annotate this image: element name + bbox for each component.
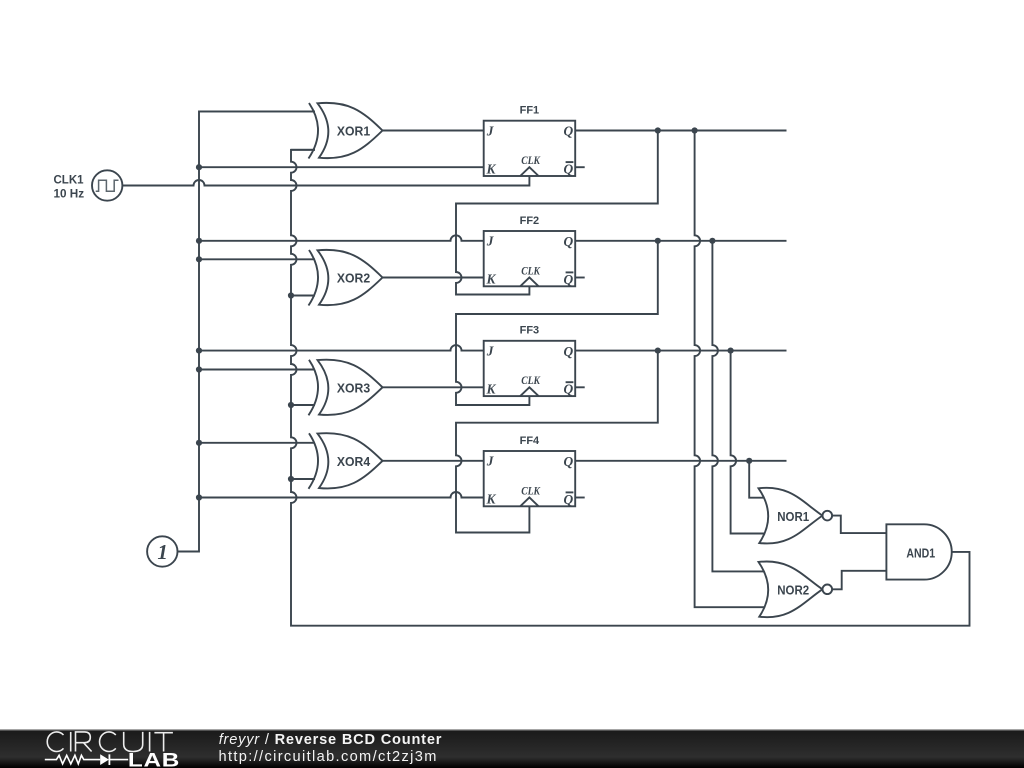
wire bus to FF4 K [199,492,484,497]
footer banner background [0,729,1024,768]
XOR4 input arc [309,433,319,489]
flip-flop FF2 [484,215,576,287]
svg-text:FF2: FF2 [520,215,540,227]
wire feedback net from AND1 output to XOR inputs (second vertical bus) [291,150,970,626]
wire feedback to XOR2 input B [291,295,315,297]
wire bus to XOR1 input A [199,110,315,112]
svg-text:J: J [486,234,495,249]
wire XOR4 output to FF4 J [383,460,484,462]
svg-text:Q: Q [564,492,574,507]
junction on left bus y=497.5 [196,494,202,500]
svg-text:K: K [486,492,497,507]
svg-text:CLK: CLK [521,373,541,387]
svg-text:Q: Q [564,124,574,139]
node 1 circle [147,536,177,566]
wire XOR1 output to FF1 J [383,130,484,132]
svg-text:1: 1 [157,540,168,564]
XOR3 input arc [309,360,319,416]
svg-text:NOR1: NOR1 [777,510,809,524]
svg-text:CLK: CLK [521,263,541,277]
CLK1 square wave glyph [96,180,119,191]
wire FF4 Q output [575,460,786,462]
wire FF3 Q-bar stub [575,386,585,388]
wire FF4 Q to NOR1 input A [749,461,764,498]
xor gate XOR2 [309,250,383,306]
wire FF1 Q to NOR2 input B [695,131,764,608]
svg-text:XOR2: XOR2 [337,272,370,286]
wire FF3 Q output [575,350,786,352]
flip-flop FF3 [484,325,576,397]
NOR2 inversion bubble [823,585,833,595]
NOR2 body [759,561,823,617]
svg-text:CLK: CLK [521,153,541,167]
clock source CLK1 [54,170,123,200]
flip-flop FF4 [484,435,576,507]
wire NOR1 output to AND1 input A [832,516,886,534]
svg-text:freyyr / Reverse BCD Counter: freyyr / Reverse BCD Counter [219,732,443,748]
svg-text:Q: Q [564,272,574,287]
junction FF1 Q / NOR2 column [692,127,698,133]
junction FF4 Q / NOR1 column [746,458,752,464]
xor gate XOR1 [309,103,383,159]
wire feedback to XOR4 input B [291,478,315,480]
svg-text:J: J [486,343,495,358]
wire bus to FF3 J [199,345,484,351]
wire FF2 Q to NOR2 input A [712,241,764,572]
NOR1 body [759,488,823,544]
svg-text:XOR1: XOR1 [337,125,370,139]
FF4 body [484,451,576,506]
svg-text:J: J [486,454,495,469]
svg-text:CLK: CLK [521,483,541,497]
FF2 body [484,231,576,286]
CircuitLab logo resistor and diode glyph [45,755,128,764]
wire bus to XOR4 input A [199,442,315,444]
FF3 clock edge triangle [520,387,538,396]
XOR2 input arc [309,250,319,306]
FF1 body [484,121,576,176]
junction on left bus y=350.6 [196,348,202,354]
wire feedback to XOR1 input B [291,149,315,151]
XOR1 input arc [309,103,319,159]
FF2 clock edge triangle [520,278,538,287]
svg-text:Q: Q [564,344,574,359]
FF3 body [484,341,576,396]
wire FF1 Q output [575,130,786,132]
junction FF1 Q / clock route [655,127,661,133]
svg-text:FF1: FF1 [520,105,540,117]
wire feedback to XOR3 input B [291,404,315,406]
svg-text:Q: Q [564,382,574,397]
svg-text:FF4: FF4 [520,435,540,447]
XOR2 body [318,250,383,305]
wire NOR2 output to AND1 input B [832,571,886,590]
junction FF2 Q / clock route [655,238,661,244]
wire FF2 Q to FF3 CLK [456,241,658,405]
wire bus to XOR3 input A [199,369,315,371]
junction FF3 Q / clock route [655,348,661,354]
svg-text:AND1: AND1 [906,546,935,560]
junction FF2 Q / NOR2 column [709,238,715,244]
CircuitLab logo CIRCUIT lettering [47,732,173,752]
FF4 clock edge triangle [520,498,538,507]
svg-text:XOR4: XOR4 [337,455,370,469]
junction on left bus y=167.2 [196,164,202,170]
wire XOR2 output to FF2 K [383,277,484,279]
AND1 body [886,524,951,579]
wire FF1 Q to FF2 CLK [456,131,658,295]
junction on left bus y=259.3 [196,256,202,262]
svg-text:LAB: LAB [128,749,180,768]
wire FF2 Q-bar stub [575,277,585,279]
junction on left bus y=240.8 [196,238,202,244]
xor gate XOR4 [309,433,383,489]
XOR3 body [318,360,383,415]
wire bus to FF2 J [199,235,484,241]
junction on feedback bus y=479.0 [288,476,294,482]
svg-text:NOR2: NOR2 [777,584,809,598]
XOR4 body [318,433,383,488]
svg-text:K: K [486,272,497,287]
svg-text:Q: Q [564,162,574,177]
wire FF3 Q to FF4 CLK [456,351,658,533]
and gate AND1 [886,524,951,579]
svg-text:10 Hz: 10 Hz [54,188,85,200]
junction FF3 Q / NOR1 column [728,348,734,354]
wire FF2 Q output [575,240,786,242]
junction on feedback bus y=295.5 [288,292,294,298]
FF1 clock edge triangle [520,167,538,176]
wire bus from node 1 (left vertical bus) [178,111,316,551]
node 1 (constant logic 1) [147,536,177,566]
svg-text:Q: Q [564,454,574,469]
wire CLK1 to FF1 CLK [122,176,529,186]
svg-text:XOR3: XOR3 [337,382,370,396]
nor gate NOR2 [759,561,833,617]
svg-text:K: K [486,381,497,396]
wire bus to FF1 K [199,166,484,168]
wire FF4 Q-bar stub [575,497,585,499]
svg-text:Q: Q [564,234,574,249]
flip-flop FF1 [484,105,576,177]
XOR1 body [318,103,383,158]
wire XOR3 output to FF3 K [383,386,484,388]
xor gate XOR3 [309,360,383,416]
junction on left bus y=369.5 [196,366,202,372]
NOR1 inversion bubble [823,511,833,521]
junction on feedback bus y=405.0 [288,402,294,408]
junction on left bus y=442.8 [196,440,202,446]
svg-text:FF3: FF3 [520,325,540,337]
CLK1 circle [92,170,122,200]
svg-text:J: J [486,123,495,138]
svg-text:CLK1: CLK1 [54,174,85,186]
nor gate NOR1 [759,488,833,544]
svg-text:http://circuitlab.com/ct2zj3m: http://circuitlab.com/ct2zj3m [219,749,438,765]
wire FF3 Q to NOR1 input B [731,351,764,534]
wire bus to XOR2 input A [199,258,315,260]
wire FF1 Q-bar stub [575,166,585,168]
wire node 1 to bus [178,551,200,553]
svg-text:K: K [486,161,497,176]
